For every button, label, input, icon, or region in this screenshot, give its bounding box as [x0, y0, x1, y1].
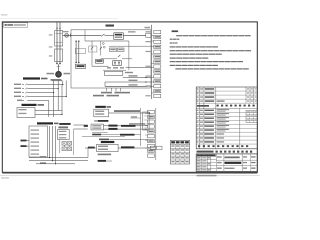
cluster C lamp box 4 — [68, 147, 72, 151]
notes line 7 — [170, 58, 176, 59]
sheet border bottom emphasis — [2, 172, 257, 174]
signal wire 2 — [105, 81, 151, 83]
notes line 8 — [170, 61, 176, 62]
cluster C exit wire 1 — [29, 157, 88, 159]
signal wire 3 — [105, 85, 151, 87]
notes line 2 — [170, 39, 173, 40]
title block signature col lines — [201, 154, 203, 172]
cluster C sub box — [58, 130, 70, 140]
isolator QS1 enclosure — [55, 31, 63, 47]
cluster F left wire — [85, 147, 97, 149]
exit wire label marks — [40, 156, 46, 157]
cluster F left wire label — [88, 147, 95, 149]
cluster D below text — [94, 120, 97, 122]
table lower row lines — [196, 111, 257, 113]
notes line 3 — [170, 42, 172, 43]
contact slash mid — [118, 55, 120, 57]
notes line 6 — [170, 54, 176, 55]
marks row under HL — [107, 67, 111, 68]
cluster E far gray labels — [129, 123, 145, 125]
aux box right of PSU — [146, 33, 151, 37]
contact circle — [103, 46, 105, 48]
cluster E device box — [91, 124, 104, 130]
title block bottom mid text — [225, 168, 235, 169]
contact tick on motor wire — [57, 66, 61, 68]
footer text below frame left — [1, 177, 9, 178]
XT1 left stub labels — [146, 31, 151, 32]
cluster C lamp box 1 — [62, 142, 66, 146]
bus phase wire L1 — [56, 22, 58, 63]
cluster A row 1 — [14, 84, 21, 85]
cluster B device box — [17, 108, 35, 118]
table header spread characters — [217, 105, 219, 107]
notes line 4 — [170, 46, 176, 47]
rail mid wire — [85, 40, 129, 42]
title block project name text — [225, 157, 240, 159]
vertical join of signal wires — [104, 82, 106, 86]
cluster F title — [101, 141, 115, 143]
faint line below frame — [0, 175, 260, 177]
fuse FU1 circle-cross — [65, 33, 69, 37]
wire vertical to E box 2 — [74, 128, 88, 130]
cluster B title — [22, 104, 37, 106]
vertical drop v1 — [84, 30, 86, 41]
cluster F strip boxes right — [150, 146, 155, 149]
label right of motor — [64, 73, 71, 75]
title block mid labels — [217, 156, 222, 157]
wire bus to motor — [58, 64, 60, 71]
cluster A row 2 — [14, 88, 21, 89]
terminal strip XT1 rail — [150, 25, 152, 99]
cluster F wire dark label — [121, 146, 134, 148]
switch SA1 blade — [101, 34, 105, 36]
bottom dark label wire — [98, 160, 107, 162]
junction dots upper bus — [56, 28, 57, 29]
table mini grid cell texts — [247, 112, 249, 113]
legend grid cols — [174, 144, 176, 164]
vertical right internal — [128, 41, 130, 70]
cluster A verticals — [53, 81, 55, 93]
rail under coils — [92, 65, 109, 67]
cluster E wire label dark 2 — [108, 128, 117, 130]
title block middle row lines — [216, 159, 242, 161]
wire above timer boxes — [109, 45, 151, 47]
cabinet outline — [71, 30, 151, 88]
table upper right col ticks — [247, 88, 249, 89]
cluster C exit wire 2 — [29, 160, 88, 162]
cluster E long wire — [82, 136, 125, 138]
table header row left cell text — [197, 105, 209, 107]
title block drawing title dark text — [225, 162, 242, 164]
cluster E secondary label — [99, 139, 109, 141]
switch hinge circle — [102, 43, 104, 45]
cluster B wire 2 — [35, 114, 62, 116]
label below motor — [51, 79, 62, 81]
title block signature cell texts — [197, 157, 201, 158]
cluster C title — [37, 122, 53, 124]
cluster D wire label — [114, 110, 140, 112]
XT2 stub wires — [145, 113, 148, 115]
breaker QF1 enclosure — [55, 49, 63, 62]
short wire into vertical — [130, 117, 140, 119]
title block right col line — [241, 154, 243, 172]
cluster C lamp box 2 — [68, 142, 72, 146]
title block right row lines — [242, 159, 257, 161]
file info text above frame — [1, 14, 8, 15]
drawing-name label text — [5, 24, 7, 26]
bus device designator labels — [49, 34, 53, 35]
CT double vertical — [75, 41, 77, 63]
relay KA coil box — [105, 71, 123, 75]
cluster E wire 2 — [104, 128, 109, 130]
drawing-name label box top-left — [4, 23, 28, 27]
label above rail — [128, 31, 136, 32]
wire D junction at strip — [149, 112, 150, 113]
junction dots lower bus — [56, 63, 58, 65]
strip header label — [145, 27, 151, 29]
contact on v2 — [91, 47, 93, 50]
entry tick — [69, 34, 71, 37]
footer text below frame right — [197, 175, 217, 177]
secondary wire dark label — [120, 134, 135, 136]
faint ruling line above frame — [0, 18, 118, 20]
contact box on v2 — [89, 46, 97, 52]
spread char row below table — [216, 151, 218, 153]
contact on v3 — [100, 47, 103, 50]
cluster E wire far dark label — [121, 125, 136, 127]
cluster C lamp box 3 — [62, 147, 66, 151]
notes line 10 — [175, 68, 181, 69]
title block middle col line — [223, 154, 225, 172]
cluster C main box — [29, 126, 48, 157]
cluster B verticals — [48, 101, 50, 118]
table upper row lines — [196, 90, 257, 92]
legend table frame — [170, 140, 189, 164]
legend grid rows — [170, 143, 189, 145]
cluster C right verticals — [59, 140, 61, 153]
wire to PSU — [105, 34, 114, 36]
cluster D outgoing wire — [109, 112, 150, 114]
terminal strip XT2 device outline — [143, 112, 149, 130]
cluster E label row2 — [59, 126, 68, 128]
timer box T2 — [118, 48, 125, 52]
cluster E wire label dark 1 — [108, 125, 117, 127]
indicator box HL with X marks — [113, 61, 122, 66]
cluster E title dark — [98, 120, 109, 122]
table lower rows text — [197, 110, 199, 111]
table footer spread characters — [198, 145, 200, 147]
vertical drop v3 — [100, 41, 102, 56]
cluster C left buttons — [21, 140, 27, 142]
notes line 9 — [170, 65, 176, 66]
contactor KM1 coil box — [96, 59, 104, 63]
branch wire to cabinet — [63, 34, 71, 36]
cluster E small dark blob — [84, 125, 88, 127]
XT2 rail — [155, 108, 157, 160]
terminal strip XT2 boxes — [148, 110, 155, 113]
legend header dark chunks — [171, 141, 175, 143]
wire vertical to E box 1 — [74, 124, 88, 126]
outgoing label row2 — [93, 95, 104, 97]
cluster C verticals — [49, 126, 51, 158]
QS1 contact ticks — [56, 33, 63, 35]
signal wire 1 — [123, 77, 152, 79]
row below table left text — [197, 151, 214, 153]
legend cell texts — [171, 145, 174, 146]
title block right mid col — [249, 154, 251, 172]
cluster D title — [95, 106, 106, 108]
wire under F — [87, 148, 89, 158]
cluster A side label — [52, 80, 63, 82]
cluster E secondary wire 1 — [92, 131, 108, 133]
label above branch — [63, 31, 69, 32]
table upper rows text — [197, 88, 199, 89]
cluster E wires to strip — [118, 125, 148, 127]
wire y70 — [103, 69, 126, 71]
terminal strip XT1 boxes — [154, 30, 161, 33]
cabinet label 4AP1 — [106, 25, 115, 27]
notes title — [172, 30, 179, 32]
cluster A row 3 — [14, 92, 21, 93]
sheet border frame — [2, 22, 257, 172]
cluster F below text — [98, 154, 111, 156]
thermal relay FR dark box — [76, 64, 86, 68]
light box near CT — [75, 49, 85, 54]
cluster A row 5 — [17, 100, 22, 101]
bus phase wire L2 — [59, 22, 61, 63]
title block header dark text — [197, 155, 216, 157]
cluster E label row1 — [59, 123, 70, 125]
cluster A row 4 — [14, 96, 21, 97]
XT1 connection stubs — [151, 34, 153, 36]
cluster F device box — [97, 144, 119, 151]
rail y58.8 — [101, 58, 118, 60]
rail after PSU — [123, 34, 146, 36]
notes line 5 — [170, 50, 176, 51]
cluster A title — [23, 77, 40, 79]
notes line 1 — [176, 35, 182, 36]
title block signature row lines — [196, 155, 216, 157]
vertical feed x140.5 — [140, 108, 142, 146]
table mini grid right — [246, 110, 257, 122]
vertical drop v2 — [91, 41, 93, 66]
outgoing label row1 — [101, 92, 112, 94]
cluster C exit wire 3 — [36, 163, 75, 165]
cluster E secondary wire 2 — [92, 134, 101, 136]
table vertical lines — [198, 87, 200, 148]
cluster D device box — [94, 109, 109, 117]
power supply U2 box — [114, 33, 124, 40]
cluster C sub label — [59, 127, 69, 129]
cluster B wire 1 — [35, 110, 62, 112]
title block right cell texts — [243, 156, 247, 157]
cabinet outgoing stubs — [106, 88, 108, 91]
cluster F outgoing wire — [118, 147, 150, 149]
rail L wire top — [71, 34, 101, 36]
material table frame — [196, 87, 257, 149]
label left of motor — [47, 73, 55, 75]
title block frame — [196, 154, 257, 172]
timer box T1 — [110, 48, 117, 52]
cluster E wire 1 — [104, 125, 109, 127]
motor M1 circle — [56, 71, 62, 77]
signal wire to strip y67.5 — [126, 67, 152, 69]
cluster C internal rows — [31, 130, 40, 131]
